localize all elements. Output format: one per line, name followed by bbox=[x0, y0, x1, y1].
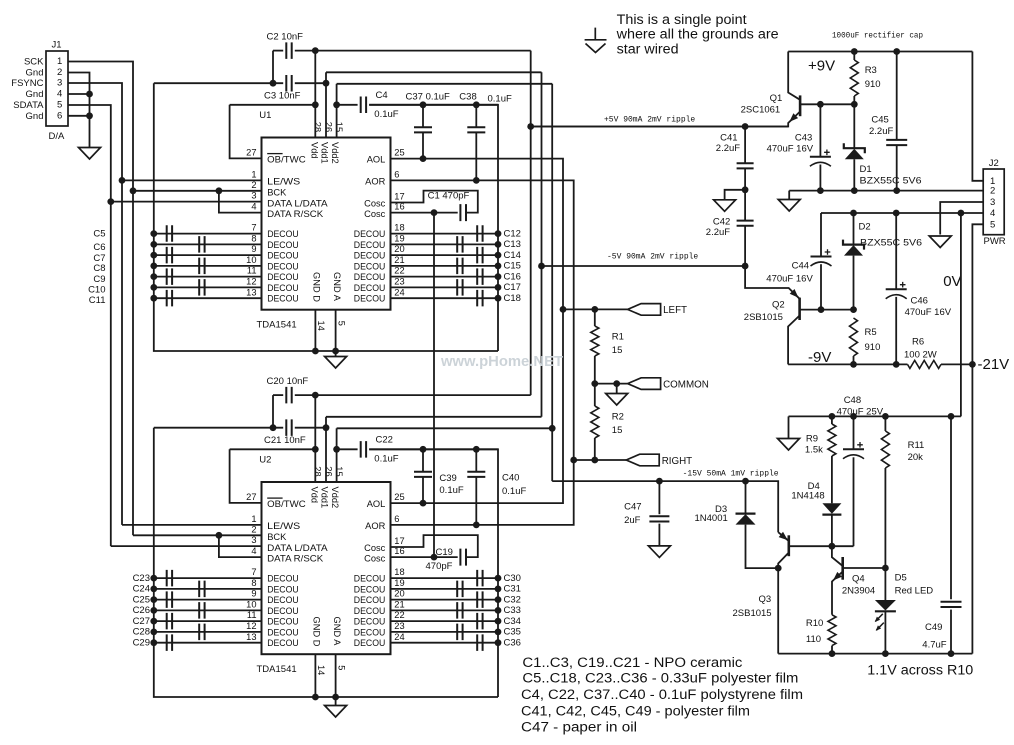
connector J1 bbox=[46, 51, 68, 126]
wire C48 rail ground stem bbox=[788, 416, 790, 438]
node U2 DECOU R2 rail junction bbox=[495, 586, 502, 593]
node U1 DECOU R7 rail junction bbox=[495, 295, 502, 302]
diode D3 upper lead bbox=[745, 481, 747, 513]
transistor Q4 collector bbox=[832, 546, 843, 566]
capacitor C1 bbox=[460, 204, 466, 221]
wire U2 DECOU row 2 left bbox=[154, 588, 262, 590]
svg-text:DECOU: DECOU bbox=[354, 627, 386, 637]
svg-text:C25: C25 bbox=[133, 594, 150, 605]
svg-text:R11: R11 bbox=[908, 440, 925, 451]
svg-text:C14: C14 bbox=[504, 250, 521, 261]
wire U1 DECOU row 1 right bbox=[391, 233, 499, 235]
capacitor C9 bbox=[167, 268, 172, 285]
svg-text:C24: C24 bbox=[133, 584, 150, 595]
svg-text:Gnd: Gnd bbox=[26, 68, 44, 79]
svg-text:DATA R/SCK: DATA R/SCK bbox=[267, 209, 324, 219]
wire U1 pin15 Vdd2 bbox=[336, 84, 338, 138]
capacitor C31 bbox=[457, 581, 462, 598]
diode D2 lower lead bbox=[853, 256, 855, 310]
svg-text:DECOU: DECOU bbox=[354, 229, 386, 239]
svg-text:13: 13 bbox=[246, 287, 256, 297]
wire BCK to U1 pin2 bbox=[133, 190, 262, 192]
svg-text:C28: C28 bbox=[133, 627, 150, 638]
diode D4 bbox=[822, 503, 841, 514]
wire U1 pin26 to -5V rail bbox=[326, 71, 542, 73]
transistor Q3 base bar bbox=[787, 535, 790, 556]
svg-text:4: 4 bbox=[57, 89, 62, 100]
svg-text:2: 2 bbox=[251, 524, 256, 534]
wire C4 left lead bbox=[337, 104, 358, 106]
capacitor C2 bbox=[286, 42, 291, 59]
capacitor C44 upper lead bbox=[820, 213, 822, 257]
capacitor C46 bbox=[886, 288, 907, 290]
node U2 DECOU L4 rail junction bbox=[150, 607, 157, 614]
svg-text:C8: C8 bbox=[93, 263, 105, 274]
svg-text:DECOU: DECOU bbox=[267, 627, 299, 637]
svg-text:where all the grounds are: where all the grounds are bbox=[616, 27, 779, 42]
svg-text:C26: C26 bbox=[133, 605, 150, 616]
node U1 DECOU R1 rail junction bbox=[495, 230, 502, 237]
capacitor C18 bbox=[477, 290, 482, 307]
capacitor C43 upper lead bbox=[819, 104, 821, 157]
node U2 DECOU L2 rail junction bbox=[150, 586, 157, 593]
node R10 bottom bbox=[829, 650, 836, 657]
wire Cosc link U1 to U2 bbox=[433, 213, 435, 557]
svg-text:C46: C46 bbox=[911, 295, 928, 306]
resistor R9 bbox=[828, 424, 836, 456]
wire -9V rail bbox=[788, 363, 907, 365]
svg-text:20: 20 bbox=[394, 589, 404, 599]
node SCK to U1 BCK junction bbox=[130, 187, 137, 194]
node C40 top junction bbox=[473, 446, 480, 453]
node U1 DECOU L4 rail junction bbox=[150, 263, 157, 270]
wire U2 DECOU row 5 right bbox=[391, 620, 499, 622]
capacitor C39 bbox=[414, 472, 432, 477]
capacitor C29 bbox=[167, 634, 172, 651]
node U2 DECOU R4 rail junction bbox=[495, 607, 502, 614]
svg-text:C39: C39 bbox=[439, 473, 456, 484]
IC U2 TDA1541 bbox=[262, 482, 391, 654]
svg-text:DECOU: DECOU bbox=[354, 606, 386, 616]
svg-text:3: 3 bbox=[251, 191, 256, 201]
node FSYNC to U1 LE junction bbox=[119, 177, 126, 184]
svg-text:J1: J1 bbox=[52, 40, 62, 51]
node U1 DECOU R6 rail junction bbox=[495, 284, 502, 291]
transistor Q3 emitter arrow bbox=[779, 532, 788, 540]
wire -21V down to LED rail bbox=[971, 364, 973, 653]
svg-text:1.1V across R10: 1.1V across R10 bbox=[867, 662, 973, 677]
wire C22 right lead bbox=[369, 448, 498, 450]
svg-text:910: 910 bbox=[865, 79, 881, 90]
svg-text:2.2uF: 2.2uF bbox=[869, 126, 893, 137]
resistor R1 lower lead bbox=[594, 356, 596, 384]
svg-text:1N4001: 1N4001 bbox=[695, 513, 728, 524]
svg-text:This is a single point: This is a single point bbox=[617, 12, 747, 27]
transistor Q1 emitter bbox=[531, 112, 800, 127]
svg-text:2N3904: 2N3904 bbox=[842, 586, 875, 597]
svg-text:C42: C42 bbox=[713, 217, 730, 228]
node U1 DECOU R4 rail junction bbox=[495, 263, 502, 270]
wire SCK from J1-1 to SCK rail bbox=[68, 62, 133, 536]
node C49 bottom bbox=[948, 650, 955, 657]
node U2 pin5 ground bbox=[332, 694, 339, 701]
svg-text:0.1uF: 0.1uF bbox=[374, 109, 398, 120]
capacitor C40 upper lead bbox=[475, 449, 477, 471]
connector J2 bbox=[983, 169, 1004, 235]
wire BCK to U2 pin2 bbox=[133, 534, 262, 536]
svg-text:COMMON: COMMON bbox=[663, 379, 709, 390]
svg-text:C48: C48 bbox=[844, 395, 861, 406]
wire U2 DECOU row 4 left bbox=[154, 609, 262, 611]
capacitor C41 bbox=[737, 163, 754, 168]
node BCK branch U2 bbox=[216, 532, 223, 539]
svg-text:DECOU: DECOU bbox=[354, 584, 386, 594]
transistor Q1 base lead bbox=[800, 103, 854, 105]
node C46 top bbox=[893, 210, 900, 217]
svg-text:9: 9 bbox=[251, 589, 256, 599]
resistor R2 upper lead bbox=[594, 384, 596, 406]
node U2 DECOU R1 rail junction bbox=[495, 575, 502, 582]
node U2 pin28 at C4 line bbox=[312, 446, 319, 453]
svg-text:DECOU: DECOU bbox=[354, 251, 386, 261]
diode D5 upper lead bbox=[884, 568, 886, 600]
svg-text:GND A: GND A bbox=[332, 617, 342, 647]
svg-text:470uF 16V: 470uF 16V bbox=[767, 144, 814, 155]
wire U2 DECOU row 7 right bbox=[391, 642, 499, 644]
capacitor C49 upper lead bbox=[950, 416, 952, 599]
svg-text:4.7uF: 4.7uF bbox=[922, 640, 946, 651]
wire FSYNC from J1-3 bbox=[68, 83, 122, 525]
svg-text:Q3: Q3 bbox=[759, 594, 772, 605]
svg-text:R3: R3 bbox=[865, 65, 877, 76]
capacitor C33 bbox=[457, 602, 462, 619]
svg-text:DECOU: DECOU bbox=[267, 229, 299, 239]
node U2 DECOU L1 rail junction bbox=[150, 575, 157, 582]
svg-text:LE/WS: LE/WS bbox=[267, 521, 300, 531]
svg-text:D5: D5 bbox=[895, 572, 907, 583]
capacitor C28 bbox=[199, 624, 204, 641]
wire J2-5 to -21V bbox=[972, 224, 983, 364]
node D1 R3 base junction bbox=[851, 101, 858, 108]
wire C20 left lead bbox=[273, 394, 283, 396]
capacitor C38 lower lead bbox=[475, 132, 477, 180]
wire U1 DECOU row 7 left bbox=[154, 297, 262, 299]
svg-text:12: 12 bbox=[246, 621, 256, 631]
svg-text:BZX55C 5V6: BZX55C 5V6 bbox=[860, 238, 922, 249]
wire return rail ground stem bbox=[788, 191, 790, 200]
wire U1 DECOU row 1 left bbox=[154, 233, 262, 235]
node J1-6 ground junction bbox=[86, 112, 93, 119]
wire U2 pin27 bbox=[230, 449, 262, 503]
capacitor C41 lower lead bbox=[744, 169, 746, 190]
capacitor C8 bbox=[199, 258, 204, 275]
resistor R11 upper lead bbox=[884, 416, 886, 431]
node C45 bottom bbox=[893, 187, 900, 194]
svg-text:27: 27 bbox=[246, 148, 256, 158]
capacitor C20 bbox=[286, 387, 291, 404]
node C48 top bbox=[850, 413, 857, 420]
svg-text:TDA1541: TDA1541 bbox=[257, 320, 297, 331]
svg-text:27: 27 bbox=[246, 492, 256, 502]
svg-text:C11: C11 bbox=[89, 295, 106, 306]
ground C48 rail bbox=[778, 439, 800, 451]
capacitor C44 lower lead bbox=[820, 264, 822, 309]
svg-text:DECOU: DECOU bbox=[267, 617, 299, 627]
wire U2 pin26 Vdd1 bbox=[325, 417, 327, 482]
node U1 DECOU R2 rail junction bbox=[495, 241, 502, 248]
transistor Q3 collector bbox=[778, 553, 789, 569]
svg-text:C41, C42, C45, C49 - polyester: C41, C42, C45, C49 - polyester film bbox=[521, 704, 750, 719]
capacitor C10 bbox=[199, 279, 204, 296]
node COMMON junction R1/R2 bbox=[591, 380, 598, 387]
svg-text:C27: C27 bbox=[133, 616, 150, 627]
svg-text:C1 470pF: C1 470pF bbox=[428, 191, 470, 202]
node U1 pin28 at C2 line bbox=[312, 47, 319, 54]
wire J2-3 to ground bbox=[940, 202, 983, 235]
node U2 pin15 at C4 line bbox=[333, 446, 340, 453]
wire U2 pin28 Vdd bbox=[314, 395, 316, 482]
svg-text:OB/TWC: OB/TWC bbox=[267, 154, 306, 164]
transistor Q2 emitter arrow bbox=[790, 289, 799, 298]
wire U2 DECOU row 6 left bbox=[154, 631, 262, 633]
node BCK branch U1 bbox=[216, 187, 223, 194]
svg-text:2SB1015: 2SB1015 bbox=[744, 312, 783, 323]
node C41 C42 ground junction bbox=[742, 186, 749, 193]
wire C48 top rail bbox=[789, 415, 961, 417]
svg-text:6: 6 bbox=[394, 514, 399, 524]
capacitor C42 bbox=[737, 221, 754, 226]
wire C2 to pin28 and +5V rail bbox=[295, 50, 531, 52]
svg-text:-15V 50mA 1mV ripple: -15V 50mA 1mV ripple bbox=[683, 470, 779, 479]
capacitor C38 bbox=[467, 127, 485, 132]
wire C2 left lead bbox=[273, 50, 283, 52]
svg-text:0.1uF: 0.1uF bbox=[374, 454, 398, 465]
svg-text:7: 7 bbox=[251, 567, 256, 577]
wire AOR to RIGHT tag bbox=[574, 459, 627, 461]
wire U2 DECOU row 2 right bbox=[391, 588, 499, 590]
svg-text:5: 5 bbox=[990, 219, 995, 230]
node U1 DECOU L3 rail junction bbox=[150, 252, 157, 259]
svg-text:0.1uF: 0.1uF bbox=[488, 93, 512, 104]
node C46 bottom bbox=[893, 361, 900, 368]
node C39 bottom junction bbox=[420, 500, 427, 507]
node U2 DECOU L3 rail junction bbox=[150, 596, 157, 603]
wire C19 pin16 lead bbox=[391, 556, 458, 558]
svg-text:100 2W: 100 2W bbox=[904, 350, 937, 361]
wire C3 to pin26 bbox=[295, 82, 326, 84]
svg-text:DECOU: DECOU bbox=[267, 283, 299, 293]
svg-text:5: 5 bbox=[337, 665, 347, 670]
wire BCK branch to U2 pin4 bbox=[219, 535, 262, 557]
node U2 pin26 at C3 line bbox=[323, 424, 330, 431]
capacitor C34 bbox=[477, 613, 482, 630]
svg-text:C37 0.1uF: C37 0.1uF bbox=[406, 92, 451, 103]
capacitor C6 bbox=[199, 236, 204, 253]
svg-text:PWR: PWR bbox=[984, 236, 1006, 247]
svg-text:DECOU: DECOU bbox=[267, 584, 299, 594]
svg-text:14: 14 bbox=[316, 321, 326, 331]
node R1 top bbox=[591, 306, 598, 313]
svg-text:5: 5 bbox=[57, 100, 62, 111]
svg-text:DECOU: DECOU bbox=[267, 251, 299, 261]
wire COMMON ground stem bbox=[616, 384, 618, 394]
wire U2 DECOU row 6 right bbox=[391, 631, 499, 633]
ground COMMON bbox=[606, 394, 628, 406]
node C3 ground bridge junction bbox=[270, 80, 277, 87]
wire C2 ground bridge bbox=[272, 51, 274, 84]
svg-text:FSYNC: FSYNC bbox=[11, 78, 43, 89]
wire U1 DECOU row 5 right bbox=[391, 276, 499, 278]
diode D1 lower lead bbox=[853, 159, 855, 190]
node R11 D5 Q4 junction bbox=[882, 565, 889, 572]
svg-text:2: 2 bbox=[57, 67, 62, 78]
wire U1 ground loop left rail bbox=[154, 83, 498, 351]
svg-text:DECOU: DECOU bbox=[354, 638, 386, 648]
resistor R10 bbox=[828, 615, 836, 646]
node COMMON ground junction bbox=[613, 380, 620, 387]
svg-text:6: 6 bbox=[57, 110, 62, 121]
wire 0V rail bbox=[821, 212, 983, 214]
svg-text:DECOU: DECOU bbox=[267, 261, 299, 271]
svg-text:-5V 90mA 2mV ripple: -5V 90mA 2mV ripple bbox=[607, 253, 698, 262]
svg-text:22: 22 bbox=[394, 610, 404, 620]
wire AOL to LEFT tag bbox=[563, 308, 628, 310]
svg-text:D2: D2 bbox=[859, 221, 871, 232]
wire C48 bottom link bbox=[853, 457, 855, 546]
wire +5V supply line bbox=[531, 126, 789, 128]
wire U2 ground loop right rail bbox=[369, 449, 498, 697]
svg-text:DECOU: DECOU bbox=[354, 574, 386, 584]
node U1 DECOU R5 rail junction bbox=[495, 273, 502, 280]
capacitor C19 bbox=[460, 549, 466, 566]
node C43 bottom bbox=[817, 187, 824, 194]
wire U1 ground loop right rail bbox=[369, 105, 498, 351]
svg-text:0.1uF: 0.1uF bbox=[439, 485, 463, 496]
node R2 bottom bbox=[591, 457, 598, 464]
wire U1 DECOU row 7 right bbox=[391, 297, 499, 299]
node U2 DECOU R5 rail junction bbox=[495, 618, 502, 625]
wire U1 DECOU row 5 left bbox=[154, 276, 262, 278]
node R11 top bbox=[882, 413, 889, 420]
svg-text:Vdd: Vdd bbox=[310, 487, 320, 504]
svg-text:TDA1541: TDA1541 bbox=[257, 664, 297, 675]
capacitor C12 bbox=[477, 225, 482, 242]
node U1 DECOU L7 rail junction bbox=[150, 295, 157, 302]
node -5V tap bbox=[538, 263, 545, 270]
transistor Q1 emitter arrow bbox=[789, 113, 798, 122]
svg-text:C47 - paper in oil: C47 - paper in oil bbox=[521, 720, 637, 735]
capacitor C23 bbox=[167, 570, 172, 587]
resistor R9 upper lead bbox=[831, 416, 833, 424]
node -21V junction bbox=[969, 361, 976, 368]
node U2 pin28 at C2 line bbox=[312, 392, 319, 399]
svg-text:23: 23 bbox=[394, 277, 404, 287]
capacitor C47 upper lead bbox=[658, 481, 660, 514]
node U2 DECOU L5 rail junction bbox=[150, 618, 157, 625]
capacitor C38 upper lead bbox=[475, 105, 477, 127]
node C38 top junction bbox=[473, 101, 480, 108]
svg-text:26: 26 bbox=[323, 122, 333, 132]
svg-text:20k: 20k bbox=[908, 452, 924, 463]
svg-text:J2: J2 bbox=[989, 158, 999, 169]
capacitor C30 bbox=[477, 570, 482, 587]
node R9 top bbox=[829, 413, 836, 420]
svg-text:C4: C4 bbox=[376, 90, 388, 101]
ground star point symbol bbox=[585, 28, 607, 53]
node C19 Cosc junction bbox=[431, 554, 438, 561]
svg-text:SCK: SCK bbox=[24, 57, 44, 68]
svg-text:C36: C36 bbox=[504, 638, 521, 649]
wire U1 pin26 Vdd1 bbox=[325, 72, 327, 137]
svg-text:C35: C35 bbox=[504, 627, 521, 638]
svg-text:2: 2 bbox=[990, 186, 995, 197]
svg-text:0V: 0V bbox=[943, 273, 961, 290]
svg-text:23: 23 bbox=[394, 621, 404, 631]
capacitor C27 bbox=[167, 613, 172, 630]
svg-text:25: 25 bbox=[394, 148, 404, 158]
svg-text:GND D: GND D bbox=[312, 272, 322, 302]
svg-text:DECOU: DECOU bbox=[267, 240, 299, 250]
svg-text:C5: C5 bbox=[93, 229, 105, 240]
svg-text:18: 18 bbox=[394, 223, 404, 233]
svg-text:AOR: AOR bbox=[365, 521, 385, 531]
resistor R6 bbox=[908, 360, 942, 368]
svg-text:C13: C13 bbox=[504, 239, 521, 250]
wire U1 ground stem bbox=[335, 351, 337, 357]
wire U2 DECOU row 3 left bbox=[154, 599, 262, 601]
svg-text:21: 21 bbox=[394, 255, 404, 265]
svg-text:7: 7 bbox=[251, 223, 256, 233]
svg-text:C45: C45 bbox=[871, 114, 888, 125]
svg-text:6: 6 bbox=[394, 170, 399, 180]
node D3 to Q3 collector bbox=[775, 565, 782, 572]
svg-text:DECOU: DECOU bbox=[354, 272, 386, 282]
resistor R2 bbox=[591, 406, 599, 438]
svg-text:C4, C22, C37..C40 - 0.1uF poly: C4, C22, C37..C40 - 0.1uF polystyrene fi… bbox=[521, 687, 803, 702]
svg-text:28: 28 bbox=[313, 122, 323, 132]
svg-text:GND A: GND A bbox=[332, 272, 342, 302]
wire C21 to pin26 bbox=[295, 427, 326, 429]
wire U1 DECOU row 4 right bbox=[391, 265, 499, 267]
node U2 DECOU L7 rail junction bbox=[150, 639, 157, 646]
wire U2 ground stem bbox=[335, 697, 337, 706]
capacitor C36 bbox=[477, 634, 482, 651]
node SDATA to U1 DATA junction bbox=[107, 198, 114, 205]
svg-text:C44: C44 bbox=[792, 260, 809, 271]
svg-text:4: 4 bbox=[251, 546, 256, 556]
wire J1-6 to ground rail bbox=[68, 115, 90, 117]
wire U1 DECOU row 2 right bbox=[391, 243, 499, 245]
transistor Q4 base bar bbox=[841, 557, 844, 580]
resistor R1 bbox=[591, 326, 599, 356]
node U2 DECOU R3 rail junction bbox=[495, 596, 502, 603]
svg-text:C5..C18, C23..C36 - 0.33uF pol: C5..C18, C23..C36 - 0.33uF polyester fil… bbox=[522, 671, 798, 686]
wire LED section bottom rail bbox=[778, 653, 972, 655]
capacitor C43 bbox=[810, 156, 831, 158]
wire C21 line left bbox=[154, 427, 283, 429]
svg-text:GND D: GND D bbox=[312, 617, 322, 647]
diode D3 bbox=[736, 512, 756, 514]
svg-text:C6: C6 bbox=[93, 242, 105, 253]
capacitor C15 bbox=[457, 258, 462, 275]
svg-text:RIGHT: RIGHT bbox=[662, 456, 692, 467]
resistor R3 bbox=[850, 60, 858, 96]
node +5V tap bbox=[527, 123, 534, 130]
wire +9V top rail bbox=[788, 51, 972, 53]
svg-text:1.5k: 1.5k bbox=[805, 445, 823, 456]
svg-text:15: 15 bbox=[334, 122, 344, 132]
svg-text:Cosc: Cosc bbox=[364, 198, 386, 208]
